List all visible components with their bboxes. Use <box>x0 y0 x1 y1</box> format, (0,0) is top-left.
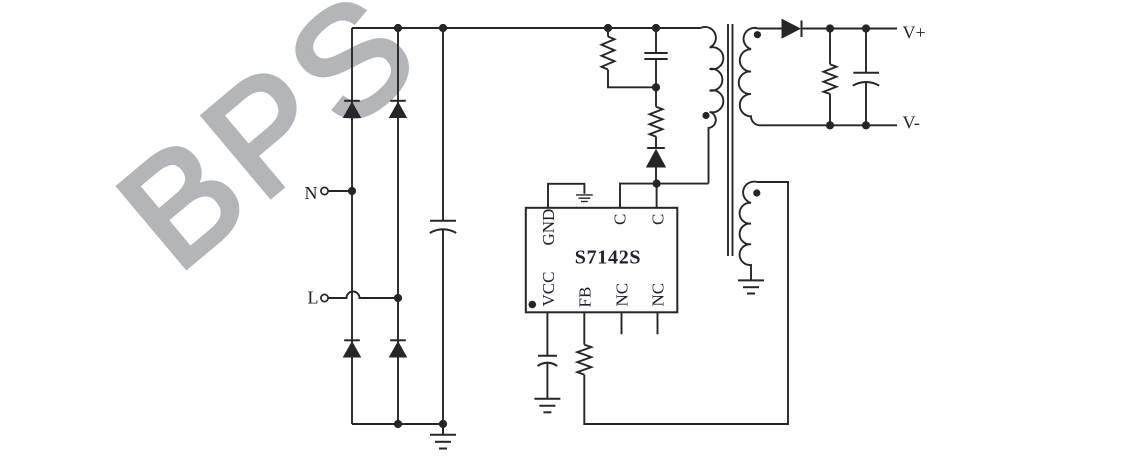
svg-text:N: N <box>305 183 318 203</box>
svg-text:BPS: BPS <box>88 0 451 300</box>
svg-text:NC: NC <box>649 283 668 307</box>
svg-text:C: C <box>611 214 630 225</box>
svg-text:S7142S: S7142S <box>575 247 641 269</box>
svg-text:VCC: VCC <box>539 272 558 307</box>
svg-text:FB: FB <box>575 287 594 308</box>
svg-text:GND: GND <box>539 209 558 246</box>
svg-text:V-: V- <box>903 113 920 133</box>
svg-text:C: C <box>649 214 668 225</box>
svg-text:L: L <box>308 288 319 308</box>
svg-text:V+: V+ <box>903 22 926 42</box>
svg-text:NC: NC <box>613 283 632 307</box>
